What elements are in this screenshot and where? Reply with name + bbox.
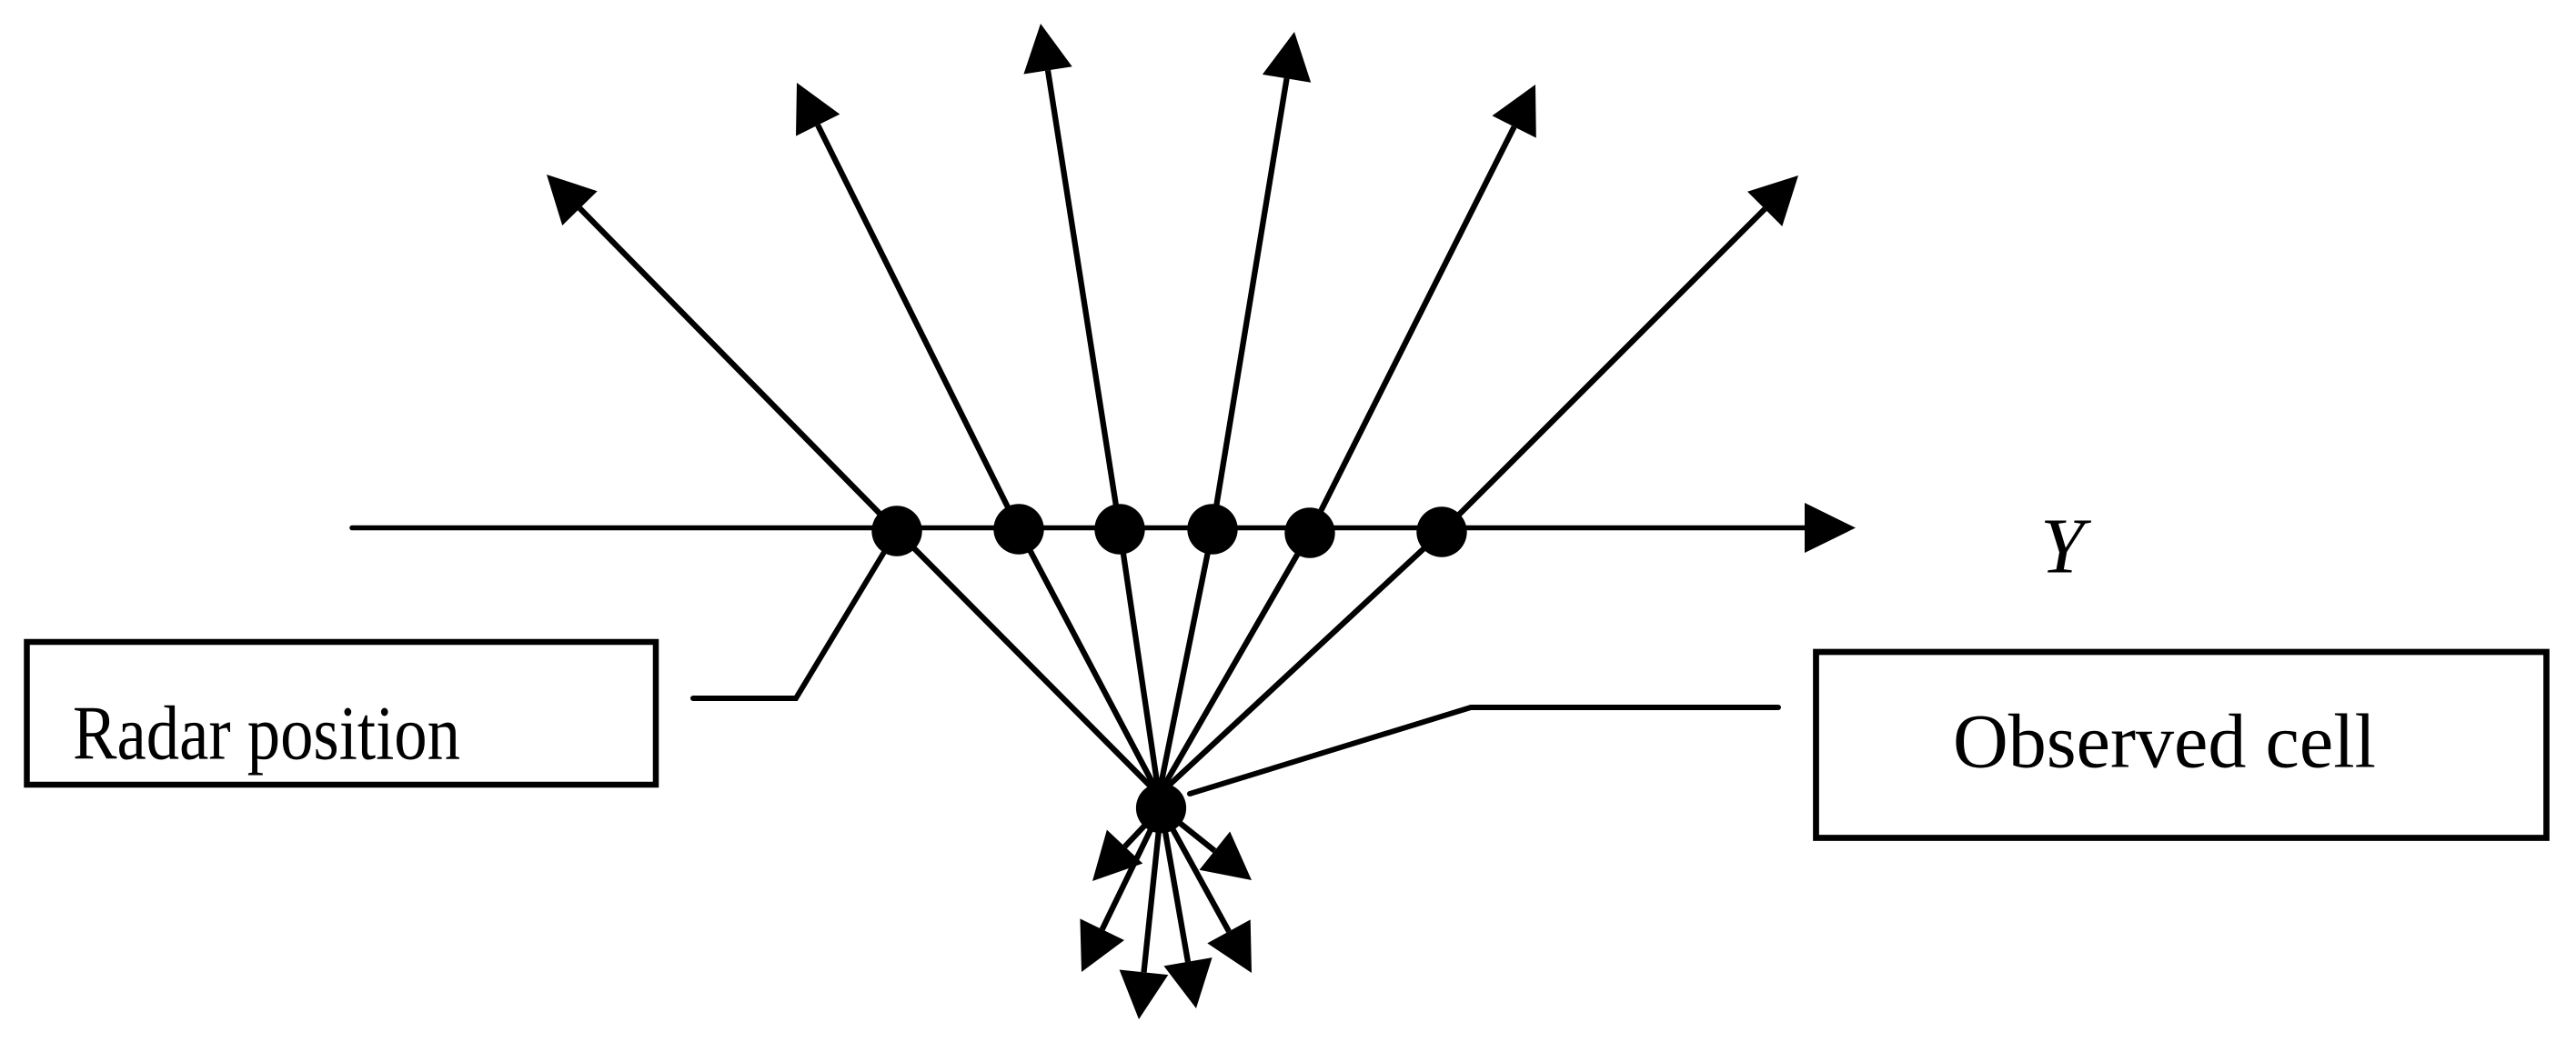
short arrow 3 xyxy=(1162,808,1213,1008)
radar position dot 1 xyxy=(871,506,921,556)
ray 2 xyxy=(796,83,1159,795)
radar position dot 3 xyxy=(1094,504,1144,554)
observed cell dot xyxy=(1136,783,1186,833)
radar position dot 4 xyxy=(1187,504,1237,554)
short arrow 2 xyxy=(1162,808,1253,973)
leader line to Radar position box xyxy=(693,531,897,698)
radar position dot 6 xyxy=(1416,506,1466,556)
radar position dot 5 xyxy=(1284,507,1334,557)
short arrow 1 (below observed cell, down-right 45) xyxy=(1162,808,1253,880)
svg-text:Radar position: Radar position xyxy=(73,692,460,776)
short arrow 5 xyxy=(1080,808,1161,972)
short arrow 6 xyxy=(1092,808,1162,881)
Radar position box xyxy=(27,642,657,785)
radar position dot 2 xyxy=(993,504,1043,554)
ray 6 xyxy=(1159,175,1798,795)
leader line to Observed cell box xyxy=(1190,707,1778,794)
ray 1 (through radar position 1, up-left arrow) xyxy=(547,175,1159,795)
svg-text:Observed cell: Observed cell xyxy=(1953,700,2376,785)
ray 4 xyxy=(1159,32,1311,795)
ray 3 xyxy=(1023,24,1159,795)
short arrow 4 xyxy=(1120,808,1169,1019)
ray 5 xyxy=(1159,85,1536,795)
Observed cell box xyxy=(1816,652,2547,838)
axis Y (horizontal arrow) xyxy=(352,503,1856,553)
